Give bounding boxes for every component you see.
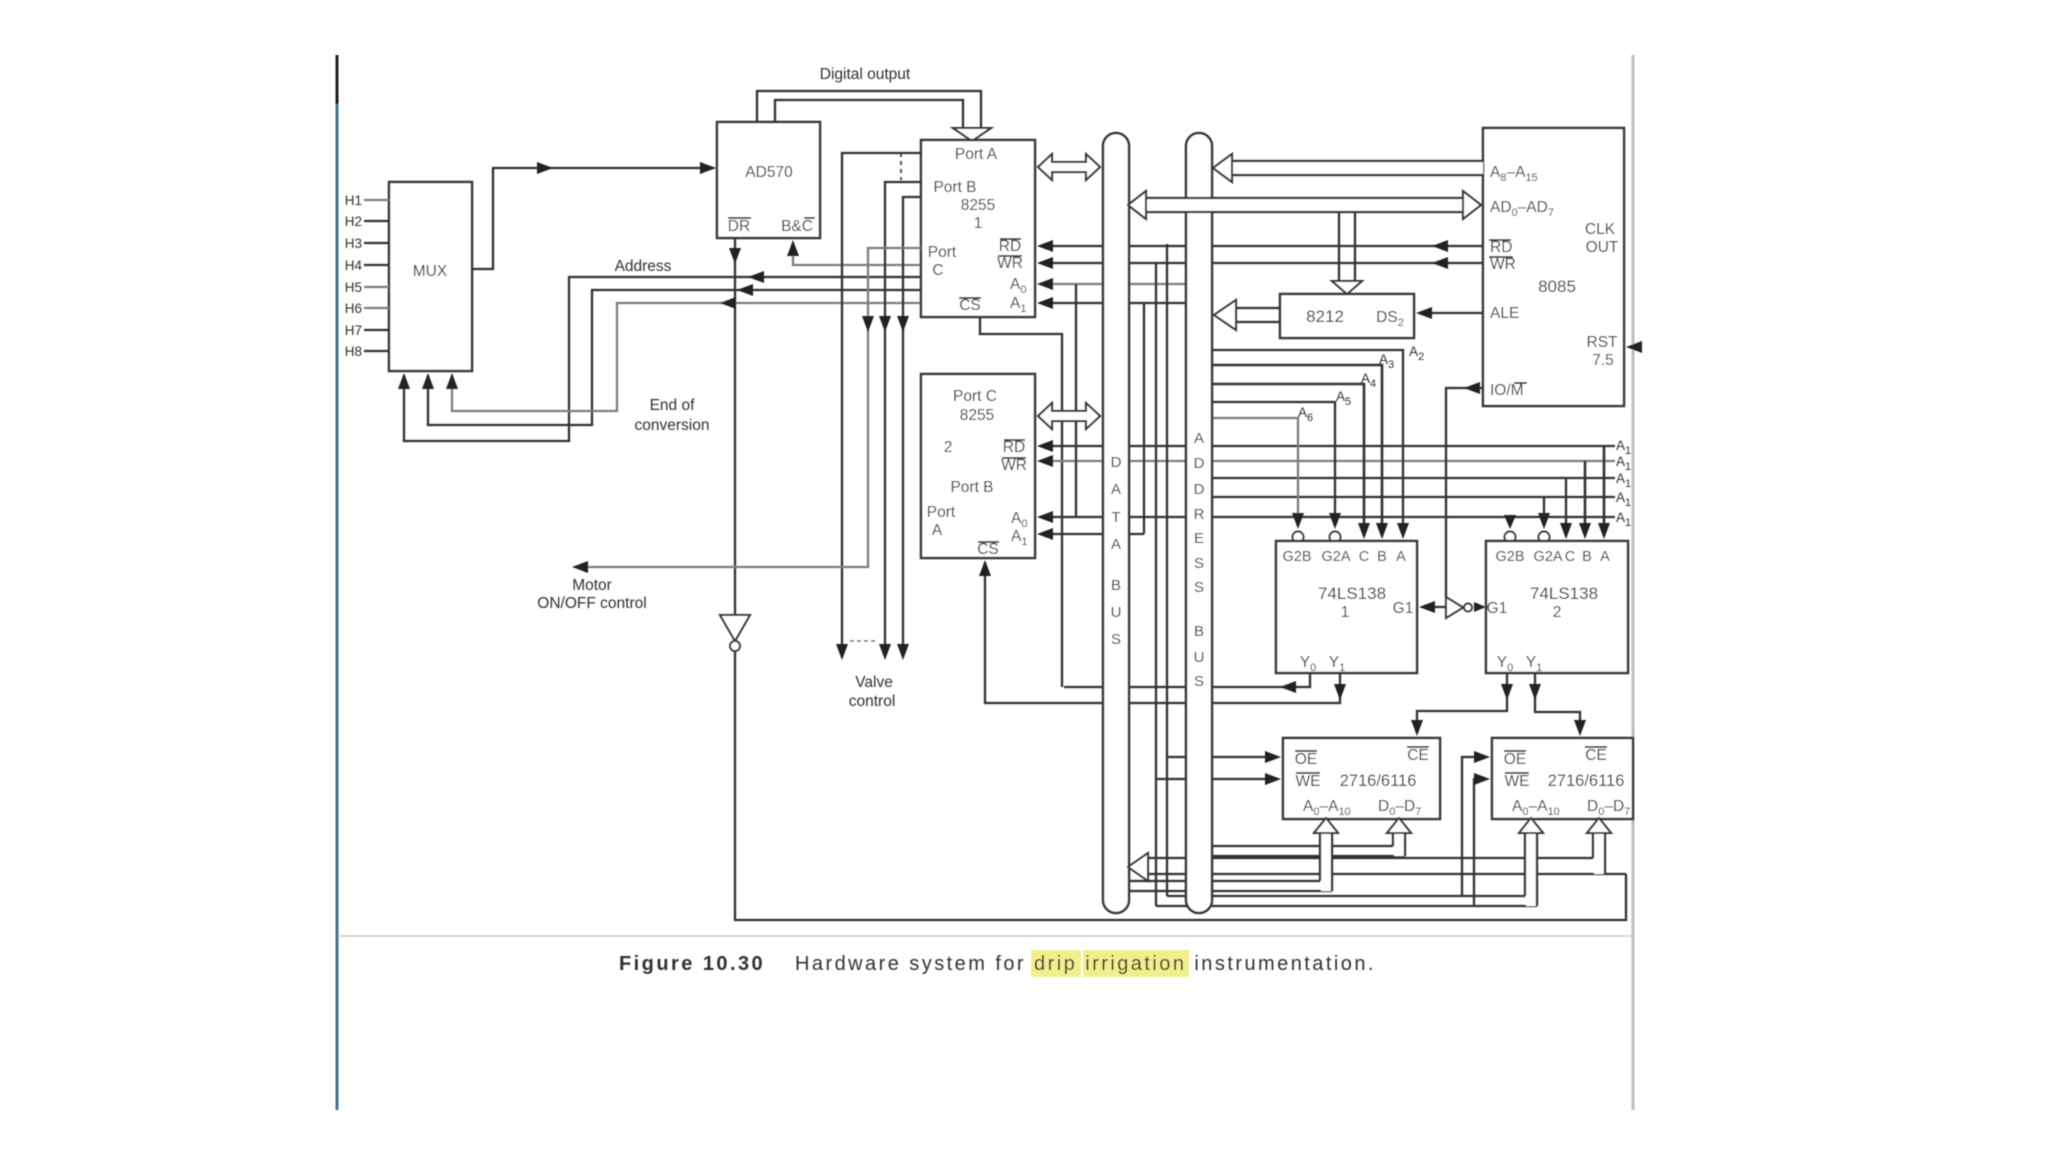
dashed tick near Port B [900, 153, 902, 180]
memory 2716/6116 #1 [1283, 738, 1440, 819]
svg-text:Port A: Port A [955, 146, 998, 163]
svg-text:2: 2 [944, 439, 953, 456]
svg-text:8085: 8085 [1538, 277, 1576, 296]
wire inverter output to bottom rail [735, 651, 1626, 920]
wire H7 to MUX [364, 329, 389, 331]
wire H8 to MUX [364, 350, 389, 352]
wire H3 to MUX [364, 242, 389, 244]
wire vertical link WR to WE [1155, 264, 1157, 906]
wire MUX analog output to AD570 [472, 168, 714, 269]
wire A6 to decoder 1 pin G2B [1211, 418, 1298, 515]
faint figure bottom rule [338, 935, 1633, 937]
wire vertical link A1 to A1-2 [1143, 303, 1145, 534]
wire Y1-1 to CS of 8255-2 [985, 562, 1340, 703]
wire OE-2 feed [1462, 757, 1486, 896]
inverter on DR line [720, 615, 750, 641]
page left border rule (black top segment) [336, 55, 339, 104]
svg-text:G1: G1 [1487, 600, 1508, 617]
wire H4 to MUX [364, 264, 389, 266]
svg-text:RD: RD [1003, 439, 1025, 456]
svg-text:D: D [1194, 455, 1205, 472]
svg-text:WR: WR [997, 255, 1023, 272]
wire CS of 8255-1 to decoder Y0 [980, 317, 1062, 687]
svg-text:2: 2 [1553, 604, 1562, 621]
bus channel memory2 D0-D7 lines [1148, 857, 1593, 859]
svg-text:Hardware system for drip irrig: Hardware system for drip irrigation inst… [795, 953, 1376, 975]
svg-text:OE: OE [1504, 751, 1526, 768]
wire A0 line to 8255-2 [1040, 516, 1615, 518]
PPI 8255 #2 [921, 374, 1035, 558]
svg-text:Motor: Motor [572, 577, 612, 594]
svg-text:S: S [1194, 673, 1204, 690]
svg-text:B&C: B&C [781, 218, 813, 235]
wire vertical link A0 to A0-2 [1075, 284, 1077, 517]
svg-text:7.5: 7.5 [1592, 352, 1614, 369]
wire address select line 2 [428, 290, 921, 425]
svg-text:Figure 10.30: Figure 10.30 [619, 953, 765, 975]
svg-text:ON/OFF control: ON/OFF control [537, 595, 646, 612]
svg-text:2716/6116: 2716/6116 [1340, 772, 1417, 790]
bus AD0-AD7 channel (8085 to DATA BUS) [1146, 198, 1463, 212]
svg-text:8212: 8212 [1306, 307, 1344, 326]
svg-text:conversion: conversion [635, 417, 710, 434]
svg-text:B: B [1582, 549, 1592, 565]
memory 2716/6116 #2 [1492, 738, 1633, 819]
wire H2 to MUX [364, 220, 389, 222]
bus shaft memory2 D0-D7 arrow [1594, 832, 1604, 874]
svg-text:CE: CE [1585, 747, 1607, 764]
svg-text:A: A [1194, 430, 1204, 447]
bus arrow memory D0-D7 into DATA BUS [1128, 853, 1148, 881]
svg-text:CS: CS [959, 297, 981, 314]
svg-text:A: A [1111, 481, 1121, 498]
bus shaft memory2 A0-A10 arrow [1526, 832, 1536, 906]
wire A1 line to 8255-2 [1040, 533, 1144, 535]
svg-text:B: B [1111, 577, 1121, 594]
wire OE-1 feed [1167, 756, 1277, 758]
svg-text:WR: WR [1001, 457, 1027, 474]
svg-text:H6: H6 [345, 301, 362, 316]
valve control wire 3 from 8255-1 [903, 197, 921, 657]
svg-text:H2: H2 [345, 214, 362, 229]
svg-text:Address: Address [615, 258, 672, 275]
svg-text:D: D [1194, 481, 1205, 498]
AD570 ADC U2 [717, 122, 820, 238]
wire H1 to MUX [364, 199, 389, 201]
svg-text:B: B [1377, 549, 1387, 565]
svg-text:AD570: AD570 [745, 164, 793, 181]
svg-text:A: A [1111, 536, 1121, 553]
svg-text:S: S [1111, 631, 1121, 648]
wire address select line 1 [404, 277, 921, 441]
wire B&C from 8255-1 Port C [793, 242, 921, 265]
wire A2 to decoder 1 pin A [1211, 350, 1403, 536]
wire RD-2 line across to right edge [1040, 445, 1615, 447]
wire vertical link RD to OE [1166, 244, 1168, 896]
motor control wire from 8255-1 [576, 248, 921, 567]
svg-text:Port B: Port B [933, 179, 976, 196]
svg-text:G2A: G2A [1533, 549, 1562, 565]
bus channel to memory2 A0-A10 lines [1167, 895, 1525, 897]
wire Y1-2 to CE of memory 2 [1535, 673, 1580, 733]
decoder 74LS138 #2 [1486, 541, 1628, 673]
wire A5 to decoder 1 pin G2A [1211, 402, 1335, 515]
svg-text:Port: Port [928, 244, 957, 261]
bus branch AD to 8212 [1338, 212, 1340, 281]
wire A12 line [1211, 496, 1615, 498]
svg-text:H7: H7 [345, 323, 362, 338]
svg-text:Port B: Port B [950, 479, 993, 496]
svg-text:Port C: Port C [953, 388, 997, 405]
svg-text:74LS138: 74LS138 [1318, 584, 1386, 603]
ADDRESS BUS capsule [1186, 133, 1212, 913]
svg-text:1: 1 [1341, 604, 1350, 621]
bidirectional bus arrow 8255-2 Port C to DATA BUS [1038, 403, 1100, 429]
svg-text:CS: CS [977, 541, 999, 558]
wire WE-1 feed [1156, 778, 1277, 780]
svg-text:OE: OE [1295, 751, 1317, 768]
bus channel ADDRESS to memory1 D0-D7 [1211, 845, 1393, 847]
svg-text:ALE: ALE [1490, 305, 1519, 322]
inverter between G1 pins [1423, 606, 1446, 608]
CPU 8085 [1483, 128, 1624, 406]
svg-text:OUT: OUT [1586, 239, 1619, 256]
svg-text:8255: 8255 [961, 197, 995, 214]
svg-text:G2A: G2A [1321, 549, 1350, 565]
wire H6 to MUX [364, 307, 389, 309]
svg-text:1: 1 [974, 215, 983, 232]
wire A13 drop to decoder 2 pin C [1565, 478, 1567, 536]
svg-text:WE: WE [1296, 773, 1321, 790]
svg-text:H5: H5 [345, 280, 362, 295]
wire WR-2 line across to right edge [1040, 460, 1615, 462]
wire WR line (8085 to 8255-1) [1040, 262, 1483, 264]
page right border rule [1632, 55, 1635, 1110]
wire A13 line [1211, 477, 1615, 479]
wire RD line (8085 to 8255-1) [1040, 245, 1483, 247]
bus shaft memory1 D0-D7 arrow [1394, 832, 1404, 856]
svg-text:G2B: G2B [1495, 549, 1524, 565]
valve control wire 1 from 8255-1 [842, 153, 921, 657]
svg-text:H8: H8 [345, 344, 362, 359]
wire A0 line to 8255-1 [1040, 283, 1186, 285]
svg-text:H1: H1 [345, 193, 362, 208]
valve control wire 2 from 8255-1 [885, 182, 921, 657]
svg-text:S: S [1194, 579, 1204, 596]
svg-text:WR: WR [1490, 256, 1516, 273]
svg-text:RST: RST [1587, 334, 1619, 351]
wire A4 to decoder 1 pin C [1211, 384, 1364, 536]
wire A1 line to 8255-1 [1040, 302, 1186, 304]
svg-text:A: A [1396, 549, 1406, 565]
page left border rule (blue lower segment) [336, 104, 339, 1110]
caption highlight drip [1031, 950, 1081, 977]
wire Y0-2 to CE of memory 1 [1417, 673, 1507, 733]
bus arrow 8212 to ADDRESS BUS [1235, 307, 1280, 309]
svg-text:G2B: G2B [1282, 549, 1311, 565]
svg-text:T: T [1111, 509, 1120, 526]
svg-text:CE: CE [1407, 747, 1429, 764]
svg-text:D: D [1111, 454, 1122, 471]
svg-text:Valve: Valve [855, 674, 893, 691]
svg-text:IO/M: IO/M [1490, 382, 1524, 399]
wire IO/M to decoder enables [1446, 388, 1483, 598]
svg-text:74LS138: 74LS138 [1530, 584, 1598, 603]
MUX U1 [389, 182, 472, 371]
wire H5 to MUX [364, 286, 389, 288]
wire A3 to decoder 1 pin B [1211, 365, 1382, 536]
svg-text:Port: Port [927, 504, 956, 521]
svg-text:G1: G1 [1393, 600, 1414, 617]
wire A14 drop to decoder 2 pin B [1584, 461, 1587, 536]
caption highlight irrigation [1083, 950, 1189, 977]
bus A8-A15 channel (8085 to ADDRESS BUS) [1232, 161, 1483, 175]
svg-text:C: C [1359, 549, 1369, 565]
wire Y0-1 to CS of 8255-1 [1064, 673, 1310, 687]
bus Digital output channel (AD570 to 8255-1 Port A) [757, 91, 981, 128]
wire A11 drop to decoder 2 pin G2B [1509, 517, 1511, 519]
bus shaft memory1 A0-A10 arrow [1321, 832, 1331, 891]
svg-text:Digital output: Digital output [820, 66, 911, 83]
svg-text:2716/6116: 2716/6116 [1548, 772, 1625, 790]
svg-text:B: B [1194, 623, 1204, 640]
svg-text:H3: H3 [345, 236, 362, 251]
wire A12 drop to decoder 2 pin G2A [1543, 497, 1545, 515]
latch 8212 [1280, 294, 1414, 338]
svg-text:RD: RD [999, 238, 1021, 255]
bidirectional bus arrow 8255-1 Port A to DATA BUS [1038, 154, 1100, 180]
wire ALE from 8085 to 8212 [1421, 312, 1483, 314]
bus channel DATA to memory1 A0-A10 lines [1129, 880, 1320, 882]
wire DR line down from AD570 [734, 238, 736, 615]
svg-text:RD: RD [1490, 239, 1512, 256]
svg-text:WE: WE [1505, 773, 1530, 790]
svg-text:CLK: CLK [1585, 221, 1616, 238]
wire address select line 3 [452, 303, 921, 411]
DATA BUS capsule [1103, 133, 1129, 913]
svg-text:H4: H4 [345, 258, 363, 273]
svg-text:C: C [932, 262, 943, 279]
svg-text:S: S [1194, 555, 1204, 572]
PPI 8255 #1 [921, 140, 1035, 317]
svg-text:MUX: MUX [413, 263, 448, 280]
svg-text:U: U [1111, 604, 1122, 621]
svg-text:control: control [849, 693, 896, 710]
svg-text:End of: End of [650, 397, 696, 414]
svg-text:8255: 8255 [960, 407, 994, 424]
svg-text:R: R [1194, 506, 1205, 523]
svg-text:A: A [932, 522, 943, 539]
wire WE-2 feed [1474, 779, 1486, 906]
svg-text:E: E [1194, 530, 1204, 547]
decoder 74LS138 #1 [1276, 541, 1417, 673]
svg-text:U: U [1194, 649, 1205, 666]
svg-text:C: C [1565, 549, 1575, 565]
wire A15 drop to decoder 2 pin A [1603, 445, 1606, 536]
dashed tick near valve lines [850, 640, 878, 642]
svg-text:A: A [1600, 549, 1610, 565]
svg-text:DR: DR [728, 218, 750, 235]
